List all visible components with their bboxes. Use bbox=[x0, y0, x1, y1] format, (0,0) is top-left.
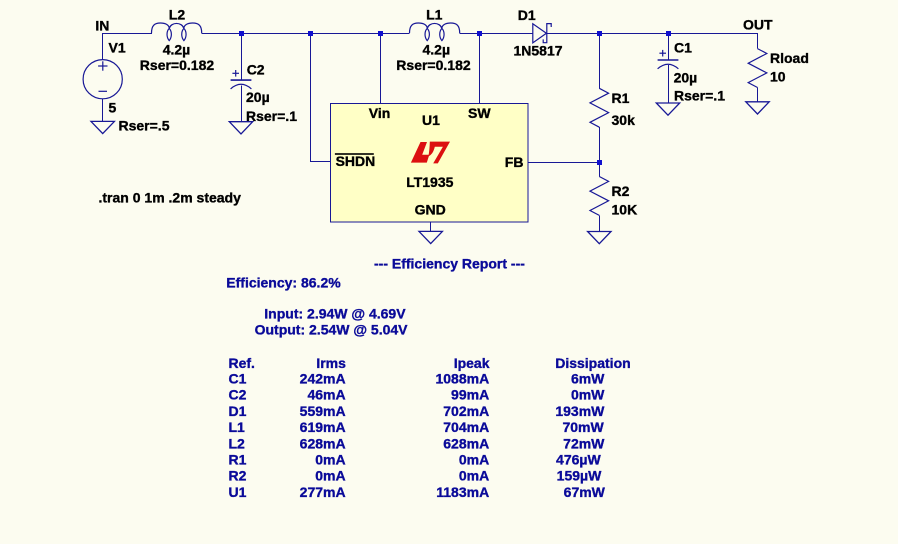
wire R1 bottom to FB node bbox=[599, 127, 601, 176]
svg-text:C2: C2 bbox=[229, 387, 247, 403]
svg-text:0mA: 0mA bbox=[315, 468, 345, 484]
wire FB horizontal bbox=[528, 162, 600, 164]
voltage source V1 bbox=[83, 60, 122, 99]
wire R2 bottom to ground bbox=[599, 215, 601, 231]
svg-text:L2: L2 bbox=[169, 7, 186, 23]
wire SHDN horizontal bbox=[310, 161, 331, 163]
ground R2 bbox=[588, 232, 611, 244]
svg-text:Dissipation: Dissipation bbox=[555, 355, 630, 371]
capacitor C1 bbox=[658, 59, 679, 61]
node R1 tap junction bbox=[597, 31, 602, 36]
wire L2 to L1 bbox=[202, 33, 410, 35]
wire Rload bottom to ground bbox=[757, 88, 759, 103]
svg-text:LT1935: LT1935 bbox=[406, 174, 453, 190]
svg-text:67mW: 67mW bbox=[564, 484, 606, 500]
svg-text:6mW: 6mW bbox=[571, 371, 605, 387]
svg-text:1N5817: 1N5817 bbox=[514, 43, 563, 59]
wire IN rail: V1 top corner to L2 bbox=[102, 33, 152, 35]
svg-text:Vin: Vin bbox=[369, 105, 391, 121]
LT logo bbox=[411, 142, 429, 163]
svg-text:Rser=.1: Rser=.1 bbox=[674, 88, 725, 104]
svg-text:V1: V1 bbox=[109, 40, 126, 56]
svg-text:Irms: Irms bbox=[316, 355, 346, 371]
svg-text:0mW: 0mW bbox=[571, 387, 605, 403]
node C2 tap junction bbox=[239, 31, 244, 36]
svg-text:4.2µ: 4.2µ bbox=[423, 42, 451, 58]
svg-text:D1: D1 bbox=[229, 403, 247, 419]
svg-text:OUT: OUT bbox=[743, 16, 773, 32]
svg-text:476µW: 476µW bbox=[556, 452, 601, 468]
capacitor C2 bbox=[231, 79, 252, 81]
svg-text:R2: R2 bbox=[229, 468, 247, 484]
svg-text:619mA: 619mA bbox=[300, 419, 346, 435]
wire C1 top bbox=[668, 33, 670, 60]
svg-text:GND: GND bbox=[415, 202, 446, 218]
svg-text:70mW: 70mW bbox=[562, 419, 604, 435]
node Vin tap junction bbox=[378, 31, 383, 36]
svg-text:Input: 2.94W @ 4.69V: Input: 2.94W @ 4.69V bbox=[264, 306, 406, 322]
op-amp/regulator U1 LT1935 body bbox=[331, 104, 529, 223]
wire V1 bottom to ground bbox=[102, 99, 104, 122]
svg-text:FB: FB bbox=[505, 154, 524, 170]
svg-text:10K: 10K bbox=[612, 202, 638, 218]
svg-text:R1: R1 bbox=[229, 452, 247, 468]
svg-text:99mA: 99mA bbox=[451, 387, 489, 403]
svg-text:72mW: 72mW bbox=[563, 435, 605, 451]
svg-text:Efficiency: 86.2%: Efficiency: 86.2% bbox=[226, 274, 341, 290]
svg-text:L1: L1 bbox=[229, 419, 246, 435]
node FB junction bbox=[597, 160, 602, 165]
svg-text:Output: 2.54W @ 5.04V: Output: 2.54W @ 5.04V bbox=[255, 322, 409, 338]
svg-text:1088mA: 1088mA bbox=[435, 371, 489, 387]
ground C2 bbox=[229, 122, 252, 134]
svg-text:R1: R1 bbox=[612, 90, 630, 106]
svg-text:D1: D1 bbox=[518, 7, 536, 23]
wire U1 GND pin bbox=[430, 222, 432, 232]
ground U1 GND bbox=[419, 231, 442, 243]
svg-text:277mA: 277mA bbox=[300, 484, 346, 500]
svg-text:U1: U1 bbox=[422, 112, 440, 128]
svg-text:1183mA: 1183mA bbox=[436, 484, 489, 500]
wire L1 to D1 anode bbox=[460, 33, 533, 35]
resistor R2 bbox=[590, 177, 609, 216]
svg-text:C1: C1 bbox=[674, 40, 692, 56]
svg-text:Rser=0.182: Rser=0.182 bbox=[396, 57, 471, 73]
inductor L2 bbox=[152, 23, 202, 41]
svg-text:C2: C2 bbox=[247, 62, 265, 78]
svg-text:R2: R2 bbox=[612, 183, 630, 199]
ground C1 bbox=[656, 103, 679, 115]
svg-text:242mA: 242mA bbox=[300, 371, 346, 387]
wire OUT corner down to Rload bbox=[757, 33, 759, 49]
svg-text:Rser=.5: Rser=.5 bbox=[119, 117, 170, 133]
svg-text:0mA: 0mA bbox=[459, 468, 489, 484]
svg-text:SW: SW bbox=[468, 105, 491, 121]
node C1 tap junction bbox=[666, 31, 671, 36]
svg-text:559mA: 559mA bbox=[300, 403, 346, 419]
svg-text:Ref.: Ref. bbox=[229, 355, 255, 371]
wire C2 bottom to ground bbox=[241, 86, 243, 122]
svg-text:628mA: 628mA bbox=[443, 435, 489, 451]
wire D1 cathode to OUT corner bbox=[547, 33, 758, 35]
svg-text:20µ: 20µ bbox=[674, 70, 698, 86]
svg-text:0mA: 0mA bbox=[315, 452, 345, 468]
svg-text:.tran 0 1m .2m steady: .tran 0 1m .2m steady bbox=[99, 190, 242, 206]
wire SHDN vertical bbox=[310, 33, 312, 162]
svg-text:702mA: 702mA bbox=[443, 403, 489, 419]
svg-text:SHDN: SHDN bbox=[336, 153, 376, 169]
svg-text:4.2µ: 4.2µ bbox=[163, 42, 191, 58]
svg-text:Ipeak: Ipeak bbox=[454, 355, 490, 371]
svg-text:20µ: 20µ bbox=[246, 89, 270, 105]
svg-text:L1: L1 bbox=[426, 7, 443, 23]
svg-text:L2: L2 bbox=[229, 435, 246, 451]
wire V1 top bbox=[102, 33, 104, 60]
svg-text:30k: 30k bbox=[612, 112, 636, 128]
svg-text:0mA: 0mA bbox=[459, 452, 489, 468]
wire C2 top bbox=[241, 33, 243, 80]
svg-text:10: 10 bbox=[770, 69, 786, 85]
resistor Rload bbox=[748, 49, 767, 88]
wire R1 top bbox=[599, 33, 601, 88]
inductor L1 bbox=[410, 23, 460, 41]
svg-text:46mA: 46mA bbox=[307, 387, 345, 403]
svg-text:193mW: 193mW bbox=[555, 403, 605, 419]
wire Vin pin bbox=[380, 33, 382, 103]
svg-text:--- Efficiency Report ---: --- Efficiency Report --- bbox=[374, 256, 525, 272]
svg-text:U1: U1 bbox=[229, 484, 247, 500]
svg-text:Rload: Rload bbox=[770, 50, 809, 66]
svg-text:5: 5 bbox=[109, 100, 117, 116]
diode D1 1N5817 bbox=[533, 24, 547, 43]
svg-text:C1: C1 bbox=[229, 371, 247, 387]
svg-text:704mA: 704mA bbox=[443, 419, 489, 435]
ground Rload bbox=[746, 102, 769, 114]
svg-text:628mA: 628mA bbox=[300, 435, 346, 451]
node SHDN tap junction bbox=[308, 31, 313, 36]
wire SW pin bbox=[479, 33, 481, 103]
node SW tap junction bbox=[477, 31, 482, 36]
resistor R1 bbox=[590, 88, 609, 127]
ground V1 bbox=[91, 121, 114, 133]
svg-text:Rser=0.182: Rser=0.182 bbox=[140, 57, 215, 73]
wire C1 bottom to ground bbox=[668, 65, 670, 103]
svg-text:159µW: 159µW bbox=[557, 468, 602, 484]
svg-text:IN: IN bbox=[95, 17, 109, 33]
